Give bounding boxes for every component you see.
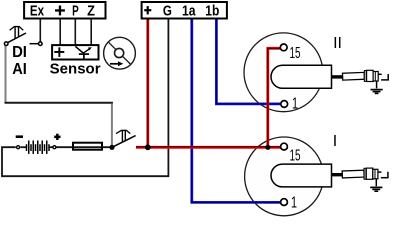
svg-text:AI: AI (12, 60, 27, 78)
svg-text:1b: 1b (205, 2, 219, 19)
svg-text:1: 1 (291, 193, 297, 211)
svg-text:G: G (163, 2, 172, 19)
svg-text:II: II (333, 35, 342, 52)
svg-text:Z: Z (87, 1, 95, 18)
svg-text:15: 15 (289, 43, 300, 61)
svg-text:1a: 1a (182, 2, 196, 18)
svg-text:1: 1 (292, 95, 298, 113)
svg-text:P: P (72, 2, 79, 19)
svg-text:Ex: Ex (30, 2, 45, 19)
svg-text:Sensor: Sensor (50, 60, 101, 77)
svg-text:15: 15 (289, 146, 300, 164)
svg-text:I: I (333, 133, 337, 150)
svg-text:DI: DI (12, 44, 27, 62)
